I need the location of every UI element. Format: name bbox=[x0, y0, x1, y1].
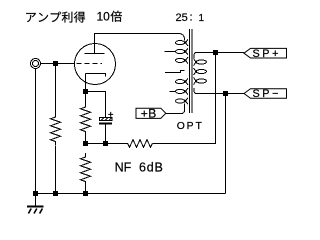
wire cathode junction to capacitor bbox=[86, 92, 106, 118]
primary winding loop 6 bbox=[176, 99, 185, 103]
tag SP- bbox=[244, 89, 287, 99]
resistor R4 NF feedback bbox=[126, 140, 153, 148]
wire plate lead to transformer bbox=[95, 34, 180, 54]
wire cathode junction down to R3 bbox=[85, 92, 87, 104]
secondary winding loop 2 bbox=[196, 69, 206, 73]
wire secondary bottom to SP- bbox=[196, 93, 244, 95]
junction node gnd-a bbox=[33, 191, 38, 196]
wire capacitor bottom lead bbox=[105, 125, 107, 144]
capacitor C1 bottom plate bbox=[99, 123, 112, 125]
input terminal J1 bbox=[31, 59, 41, 69]
svg-text:10: 10 bbox=[97, 9, 111, 23]
svg-text:25: 25 bbox=[176, 12, 188, 24]
svg-text:6dB: 6dB bbox=[139, 160, 164, 174]
ground bus wire bbox=[36, 193, 226, 195]
resistor R1 grid bbox=[51, 113, 61, 146]
primary layer stub 2 bbox=[170, 91, 176, 93]
primary bottom lead curve to +B bbox=[181, 104, 185, 114]
wire R2 bottom to ground bus bbox=[55, 146, 57, 194]
capacitor C1 polarity plus bbox=[108, 112, 113, 117]
wire R3 bottom to junction bbox=[85, 136, 87, 144]
secondary winding loop 3 bbox=[196, 79, 206, 83]
wire grid junction down to R2 bbox=[55, 64, 57, 114]
junction node gnd-b bbox=[53, 191, 58, 196]
svg-text:SP+: SP+ bbox=[253, 48, 282, 60]
capacitor C1 top plate (hatched) bbox=[100, 118, 113, 121]
junction node grid bbox=[53, 61, 58, 66]
junction node SP- node bbox=[223, 91, 228, 96]
svg-text:1: 1 bbox=[199, 13, 205, 24]
wire SP- junction down bbox=[225, 94, 227, 194]
ground symbol bbox=[27, 194, 44, 214]
label 倍 bbox=[110, 11, 121, 22]
wire cathode lead down bbox=[85, 74, 87, 92]
primary winding loop 4 bbox=[176, 80, 185, 84]
plate bar bbox=[85, 53, 105, 55]
junction node gnd-c bbox=[83, 191, 88, 196]
svg-text::: : bbox=[190, 11, 193, 23]
primary center tap bbox=[165, 71, 185, 73]
primary winding loop 1 bbox=[176, 41, 185, 45]
wire secondary top to SP+ bbox=[196, 52, 244, 54]
junction node cap-bottom bbox=[103, 141, 108, 146]
resistor R3 cathode lower bbox=[81, 153, 91, 186]
junction node SP+ node bbox=[213, 50, 218, 55]
wire NF resistor to feedback riser bbox=[153, 54, 216, 144]
label アンプ利得 bbox=[26, 13, 36, 22]
transformer T1 primary top lead curve bbox=[179, 34, 185, 41]
secondary winding loop 1 bbox=[196, 60, 206, 64]
grid dashed line bbox=[77, 63, 103, 65]
svg-text:SP−: SP− bbox=[253, 88, 282, 100]
cathode bbox=[86, 74, 106, 77]
primary winding loop 3 bbox=[176, 58, 185, 62]
wire junction row between R3 and R4 bbox=[86, 143, 126, 145]
junction node R3-R4 bbox=[83, 141, 88, 146]
primary winding loop 5 bbox=[176, 89, 185, 93]
wire +B lead bbox=[166, 113, 181, 115]
tag SP+ bbox=[244, 48, 287, 58]
svg-text:+B: +B bbox=[141, 107, 157, 121]
svg-text:OPT: OPT bbox=[177, 121, 204, 132]
primary winding loop 2 bbox=[176, 49, 185, 53]
transformer core bbox=[190, 29, 192, 113]
secondary top lead curve bbox=[194, 53, 196, 59]
svg-text:NF: NF bbox=[115, 160, 132, 174]
junction node cathode bbox=[83, 89, 88, 94]
resistor R2 cathode upper bbox=[81, 103, 91, 136]
tag +B bbox=[136, 108, 166, 118]
tube envelope circle V1 bbox=[75, 44, 116, 85]
primary layer stub 1 bbox=[165, 51, 176, 53]
wire input terminal down bbox=[35, 69, 37, 194]
wire R4 to ground bus bbox=[85, 186, 87, 194]
secondary bottom lead curve bbox=[194, 88, 196, 94]
wire input to grid bbox=[41, 63, 75, 65]
